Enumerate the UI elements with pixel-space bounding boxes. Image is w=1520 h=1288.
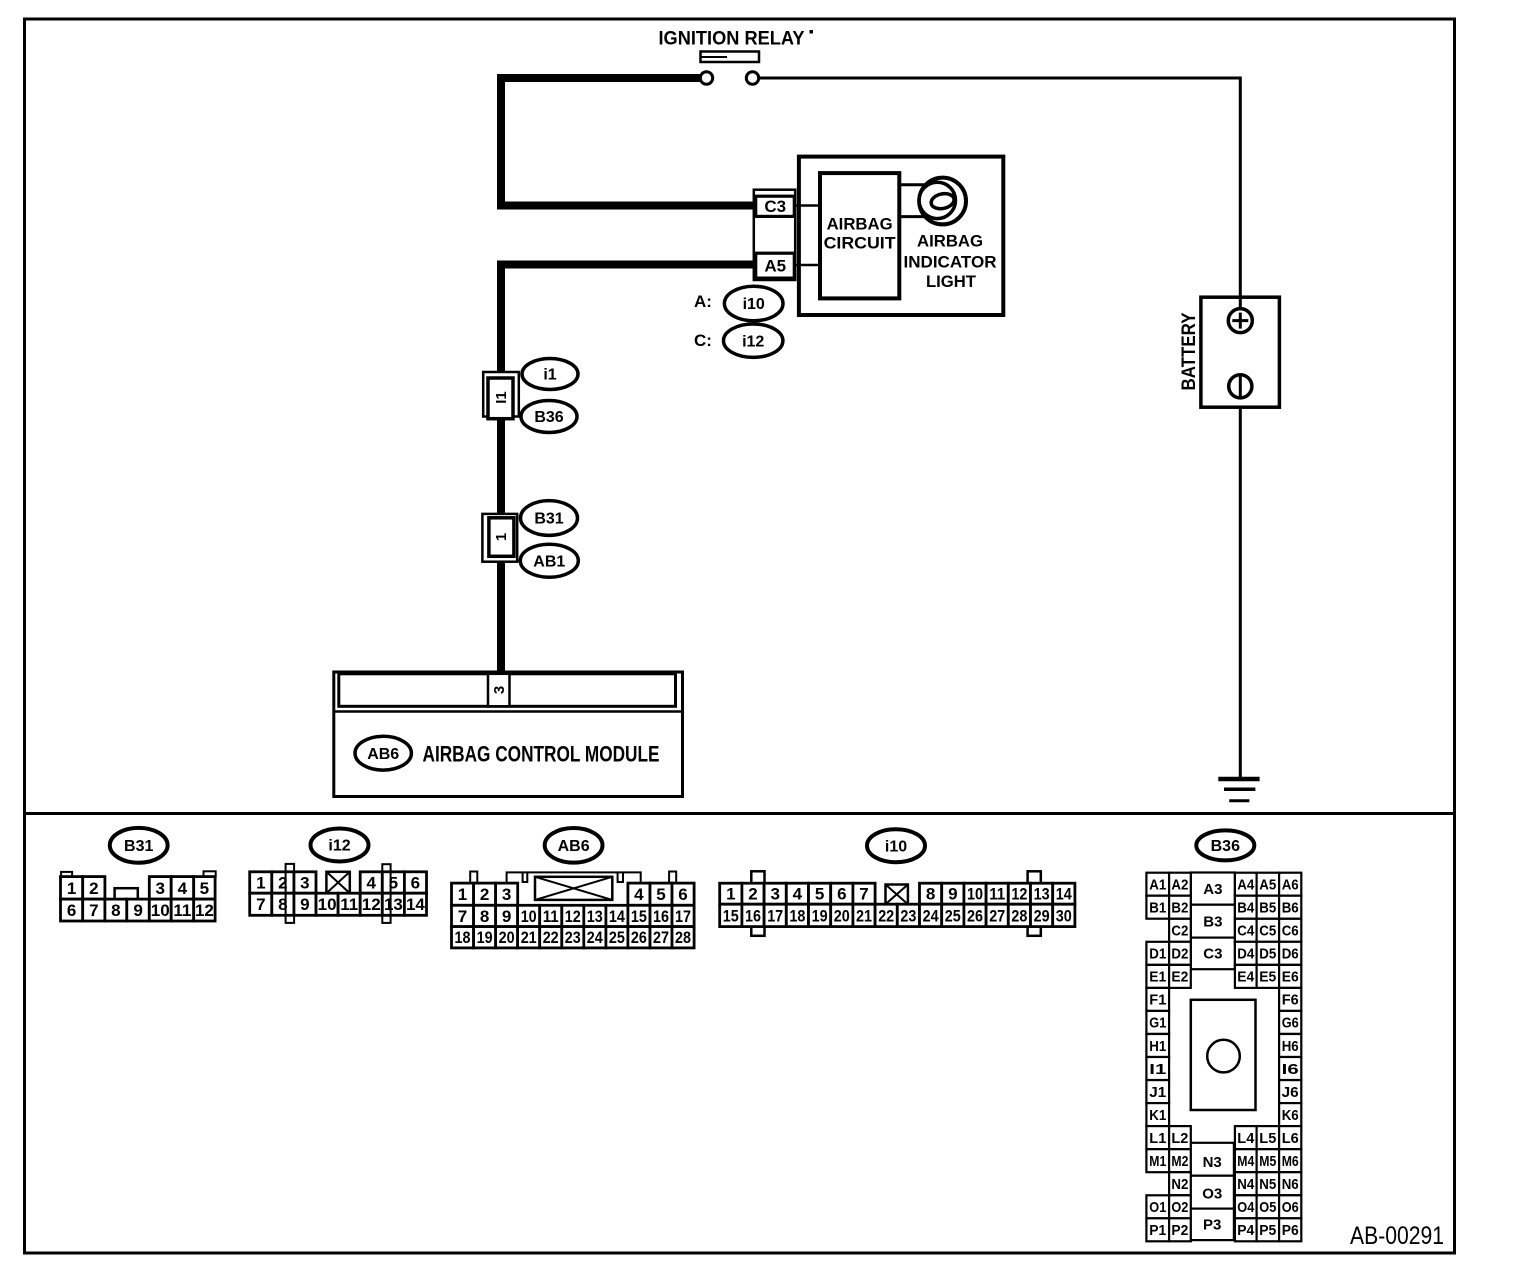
AB6 pin 7 xyxy=(452,905,474,926)
wire: relay to battery positive xyxy=(757,78,1240,779)
B36 pin A5 xyxy=(1257,873,1280,896)
B36 pin C5 xyxy=(1257,919,1280,942)
B36 pin M1 xyxy=(1146,1149,1169,1172)
svg-text:11: 11 xyxy=(173,901,191,920)
B36 pin N2 xyxy=(1169,1172,1191,1195)
B31 pin 9 xyxy=(127,899,150,921)
AB6 pin 14 xyxy=(606,905,628,926)
svg-text:H1: H1 xyxy=(1149,1038,1166,1055)
svg-text:M1: M1 xyxy=(1149,1153,1166,1170)
connector oval B31 (inline) xyxy=(521,501,578,536)
B36 pin M2 xyxy=(1169,1149,1191,1172)
svg-text:10: 10 xyxy=(151,901,170,920)
B36 pin I1 xyxy=(1146,1057,1169,1080)
i10 pin 30 xyxy=(1053,904,1075,926)
i10 latch strip left xyxy=(751,871,764,936)
B36 pin O5 xyxy=(1257,1195,1280,1218)
i10 pin 6 xyxy=(831,883,853,904)
svg-text:G6: G6 xyxy=(1282,1015,1299,1032)
svg-text:D6: D6 xyxy=(1282,946,1299,963)
AB6 pin 5 xyxy=(650,883,672,905)
svg-text:19: 19 xyxy=(477,928,493,947)
svg-text:C5: C5 xyxy=(1259,923,1276,940)
B31 pin 12 xyxy=(194,899,215,921)
svg-text:21: 21 xyxy=(521,928,537,947)
i10 pin 25 xyxy=(942,904,964,926)
AB6 pin 21 xyxy=(518,927,540,948)
i10 pin 16 xyxy=(742,904,764,926)
B36 pin O4 xyxy=(1235,1195,1257,1218)
svg-text:16: 16 xyxy=(653,907,669,926)
svg-text:E6: E6 xyxy=(1282,969,1299,986)
AB6 pin 20 xyxy=(496,927,518,948)
svg-text:22: 22 xyxy=(878,906,894,925)
B36 pin A6 xyxy=(1279,873,1301,896)
wire: ignition relay to connector C3 (thick) xyxy=(501,78,755,206)
B36 pin O2 xyxy=(1169,1195,1191,1218)
svg-text:P5: P5 xyxy=(1259,1222,1276,1239)
svg-text:J1: J1 xyxy=(1149,1084,1166,1101)
svg-text:1: 1 xyxy=(458,885,467,904)
svg-text:O5: O5 xyxy=(1259,1199,1276,1216)
B36 cell C3 xyxy=(1191,938,1235,970)
svg-text:7: 7 xyxy=(458,907,467,926)
B36 pin N4 xyxy=(1235,1172,1257,1195)
i10 latch strip right xyxy=(1028,871,1041,936)
svg-text:25: 25 xyxy=(945,906,961,925)
B36 pin B2 xyxy=(1169,896,1191,919)
inline connector I1 inner xyxy=(488,378,513,419)
i10 pin 22 xyxy=(875,904,897,926)
i10 keyway xyxy=(886,885,908,905)
svg-text:L5: L5 xyxy=(1259,1130,1276,1147)
B36 pin D4 xyxy=(1235,942,1257,965)
AB6 pin 15 xyxy=(628,905,650,926)
svg-text:8: 8 xyxy=(480,907,489,926)
svg-text:12: 12 xyxy=(1011,885,1027,904)
i10 pin 2 xyxy=(742,883,764,904)
i10 pin 13 xyxy=(1031,883,1053,904)
AB6 housing tab right xyxy=(669,872,676,884)
svg-text:28: 28 xyxy=(1011,906,1027,925)
inline connector 1 outer xyxy=(482,514,517,562)
i10 pin 18 xyxy=(786,904,808,926)
AB6 pin 6 xyxy=(672,883,694,905)
svg-text:10: 10 xyxy=(318,895,337,914)
connector oval i12 (C) xyxy=(724,324,783,357)
i10 pin 4 xyxy=(786,883,808,904)
svg-text:H6: H6 xyxy=(1282,1038,1299,1055)
svg-text:14: 14 xyxy=(1056,885,1072,904)
B36 pin P6 xyxy=(1279,1218,1301,1241)
connector pin C3 xyxy=(756,196,795,216)
svg-text:A:: A: xyxy=(694,292,712,311)
B36 pin B6 xyxy=(1279,896,1301,919)
svg-text:8: 8 xyxy=(111,901,120,920)
svg-text:E5: E5 xyxy=(1259,969,1276,986)
i10 pin 27 xyxy=(986,904,1008,926)
svg-text:9: 9 xyxy=(948,885,957,904)
svg-text:AIRBAG CONTROL MODULE: AIRBAG CONTROL MODULE xyxy=(423,742,660,767)
svg-text:3: 3 xyxy=(770,885,779,904)
svg-text:26: 26 xyxy=(631,928,647,947)
relay K1 inner bar xyxy=(702,56,728,58)
svg-text:K1: K1 xyxy=(1149,1107,1166,1124)
AB6 pin 22 xyxy=(540,927,562,948)
svg-text:4: 4 xyxy=(634,885,644,904)
B36 pin F6 xyxy=(1279,988,1301,1011)
i10 pin 9 xyxy=(942,883,964,904)
svg-text:J6: J6 xyxy=(1282,1084,1299,1101)
svg-text:10: 10 xyxy=(967,885,983,904)
svg-text:B36: B36 xyxy=(534,409,563,426)
AB6 pin 24 xyxy=(584,927,606,948)
module pin 3 cell xyxy=(488,674,510,707)
svg-text:P2: P2 xyxy=(1171,1222,1188,1239)
B36 center hole xyxy=(1207,1040,1240,1073)
i10 pin 3 xyxy=(764,883,786,904)
svg-text:1: 1 xyxy=(726,885,735,904)
AB6 pin 23 xyxy=(562,927,584,948)
B36 pin C6 xyxy=(1279,919,1301,942)
B36 pin J6 xyxy=(1279,1080,1301,1103)
AB6 pin 9 xyxy=(496,905,518,926)
B31 pin 3 xyxy=(149,877,171,900)
svg-text:B31: B31 xyxy=(534,511,563,528)
AB6 pin 16 xyxy=(650,905,672,926)
AB6 housing tab left xyxy=(470,872,477,884)
svg-text:P4: P4 xyxy=(1237,1222,1255,1239)
svg-text:9: 9 xyxy=(502,907,511,926)
B31 housing tab right xyxy=(204,871,216,877)
combination meter box xyxy=(799,157,1003,315)
svg-text:L1: L1 xyxy=(1149,1130,1166,1147)
i10 pin 11 xyxy=(986,883,1008,904)
svg-text:M6: M6 xyxy=(1282,1153,1299,1170)
svg-text:A3: A3 xyxy=(1203,881,1222,898)
i12 latch strip left xyxy=(286,864,295,923)
svg-text:AB-00291: AB-00291 xyxy=(1350,1222,1444,1250)
i10 pin 20 xyxy=(831,904,853,926)
airbag indicator light label xyxy=(904,231,997,291)
B36 pin I6 xyxy=(1279,1057,1301,1080)
svg-text:A4: A4 xyxy=(1237,877,1255,894)
wire: battery positive feed inside box xyxy=(1239,297,1242,309)
svg-text:15: 15 xyxy=(631,907,647,926)
svg-text:D1: D1 xyxy=(1149,946,1166,963)
airbag control module connector strip xyxy=(339,674,676,707)
svg-text:3: 3 xyxy=(300,874,309,893)
svg-text:A5: A5 xyxy=(1259,877,1276,894)
svg-text:6: 6 xyxy=(411,874,420,893)
svg-text:2: 2 xyxy=(480,885,489,904)
B36 pin A1 xyxy=(1146,873,1169,896)
svg-text:N2: N2 xyxy=(1171,1176,1188,1193)
B36 pin B1 xyxy=(1146,896,1169,919)
AB6 pin 8 xyxy=(474,905,496,926)
svg-text:C:: C: xyxy=(694,331,712,350)
i10 pin 14 xyxy=(1053,883,1075,904)
wire: C3 to airbag circuit xyxy=(796,204,822,207)
svg-text:13: 13 xyxy=(384,895,403,914)
svg-text:16: 16 xyxy=(745,906,761,925)
wire: airbag circuit to indicator lamp (upper) xyxy=(899,183,932,186)
svg-text:C6: C6 xyxy=(1282,923,1299,940)
svg-text:LIGHT: LIGHT xyxy=(926,272,977,291)
svg-text:17: 17 xyxy=(675,907,691,926)
B36 pin H1 xyxy=(1146,1034,1169,1057)
svg-text:18: 18 xyxy=(789,906,805,925)
AB6 pin 13 xyxy=(584,905,606,926)
AB6 pin 19 xyxy=(474,927,496,948)
AB6 pin 1 xyxy=(452,883,474,905)
svg-text:B1: B1 xyxy=(1149,900,1166,917)
i10 pin 24 xyxy=(920,904,942,926)
B31 pin 10 xyxy=(149,899,171,921)
svg-text:i10: i10 xyxy=(885,838,907,855)
i10 pin 26 xyxy=(964,904,986,926)
B36 pin A2 xyxy=(1169,873,1191,896)
connector oval AB6 (module) xyxy=(355,736,411,770)
i12 pin 3 xyxy=(294,872,316,893)
connector oval B36 xyxy=(521,401,577,433)
battery box xyxy=(1201,297,1280,407)
i10 pin 29 xyxy=(1031,904,1053,926)
i10 pin 21 xyxy=(853,904,875,926)
stray dot xyxy=(810,30,814,34)
i12 pin 10 xyxy=(316,893,338,915)
svg-text:2: 2 xyxy=(89,879,98,898)
i12 pin 2 xyxy=(272,872,294,893)
AB6 pin 3 xyxy=(496,883,518,905)
svg-text:3: 3 xyxy=(491,686,508,694)
svg-text:1: 1 xyxy=(67,879,76,898)
i10 pin 5 xyxy=(809,883,831,904)
svg-text:1: 1 xyxy=(493,533,510,541)
wire: A5 to airbag circuit xyxy=(796,264,822,267)
svg-text:N5: N5 xyxy=(1259,1176,1276,1193)
B31 pin 5 xyxy=(194,877,215,900)
B31 pin 1 xyxy=(61,877,83,900)
i10 pin 23 xyxy=(897,904,919,926)
B36 pin N5 xyxy=(1257,1172,1280,1195)
svg-text:24: 24 xyxy=(923,906,939,925)
inline connector I1 outer xyxy=(483,372,519,417)
svg-text:4: 4 xyxy=(366,874,376,893)
airbag control module box xyxy=(334,672,683,797)
relay contact terminal (right) xyxy=(746,72,758,84)
svg-text:14: 14 xyxy=(609,907,625,926)
B31 pin 2 xyxy=(83,877,105,900)
B36 pin F1 xyxy=(1146,988,1169,1011)
svg-text:5: 5 xyxy=(200,879,209,898)
B36 pin M6 xyxy=(1279,1149,1301,1172)
svg-text:13: 13 xyxy=(587,907,603,926)
AB6 pin 28 xyxy=(672,927,694,948)
svg-text:O1: O1 xyxy=(1149,1199,1166,1216)
AB6 pin 2 xyxy=(474,883,496,905)
B36 pin D2 xyxy=(1169,942,1191,965)
svg-text:L4: L4 xyxy=(1237,1130,1255,1147)
svg-text:I1: I1 xyxy=(1149,1061,1166,1078)
i10 pin 17 xyxy=(764,904,786,926)
B36 pin P4 xyxy=(1235,1218,1257,1241)
svg-text:AB1: AB1 xyxy=(533,553,565,570)
svg-text:B3: B3 xyxy=(1203,914,1222,931)
svg-text:i12: i12 xyxy=(328,838,350,855)
i12 pin 4 xyxy=(360,872,382,893)
i12 pin 8 xyxy=(272,893,294,915)
connector B36 oval xyxy=(1196,830,1254,860)
i10 pin 19 xyxy=(809,904,831,926)
svg-text:I1: I1 xyxy=(493,391,510,404)
svg-text:F6: F6 xyxy=(1282,992,1299,1009)
ground symbol xyxy=(1218,779,1259,801)
B31 pin 6 xyxy=(61,899,83,921)
svg-text:B2: B2 xyxy=(1171,900,1188,917)
B31 pin 4 xyxy=(171,877,194,900)
section separator line xyxy=(25,812,1455,815)
connector B31 oval xyxy=(110,828,168,863)
svg-text:O3: O3 xyxy=(1202,1185,1222,1202)
AB6 pin 27 xyxy=(650,927,672,948)
svg-text:12: 12 xyxy=(362,895,381,914)
svg-text:20: 20 xyxy=(834,906,850,925)
svg-text:11: 11 xyxy=(340,895,358,914)
svg-text:L6: L6 xyxy=(1282,1130,1299,1147)
svg-text:B31: B31 xyxy=(124,838,153,855)
B36 pin N6 xyxy=(1279,1172,1301,1195)
svg-text:20: 20 xyxy=(499,928,515,947)
airbag circuit unit U1 xyxy=(820,173,899,298)
svg-text:i1: i1 xyxy=(543,367,556,384)
airbag indicator light bulb xyxy=(919,178,966,225)
connector i10 oval xyxy=(867,829,925,862)
svg-text:D5: D5 xyxy=(1259,946,1276,963)
i12 pin 6 xyxy=(404,872,426,893)
svg-text:19: 19 xyxy=(812,906,828,925)
B31 latch xyxy=(115,888,138,900)
svg-text:23: 23 xyxy=(900,906,916,925)
svg-text:6: 6 xyxy=(678,885,687,904)
B36 pin D6 xyxy=(1279,942,1301,965)
svg-text:17: 17 xyxy=(767,906,783,925)
svg-text:i10: i10 xyxy=(743,296,765,313)
AB6 pin 18 xyxy=(452,927,474,948)
svg-text:13: 13 xyxy=(1034,885,1050,904)
svg-text:P1: P1 xyxy=(1149,1222,1166,1239)
svg-text:10: 10 xyxy=(521,907,537,926)
svg-text:30: 30 xyxy=(1056,906,1072,925)
i12 pin 14 xyxy=(404,893,426,915)
svg-text:O2: O2 xyxy=(1171,1199,1188,1216)
B36 pin P2 xyxy=(1169,1218,1191,1241)
AB6 pin 12 xyxy=(562,905,584,926)
B36 cell P3 xyxy=(1191,1209,1234,1241)
svg-text:N4: N4 xyxy=(1237,1176,1255,1193)
svg-text:C2: C2 xyxy=(1171,923,1188,940)
B36 pin G1 xyxy=(1146,1011,1169,1034)
svg-text:23: 23 xyxy=(565,928,581,947)
svg-text:C4: C4 xyxy=(1237,923,1255,940)
connector AB6 oval xyxy=(545,828,603,863)
B36 cell B3 xyxy=(1191,905,1235,938)
svg-text:5: 5 xyxy=(815,885,824,904)
svg-text:AIRBAG: AIRBAG xyxy=(827,215,893,234)
wire: connector A5 to airbag control module pin 3 (thick) xyxy=(501,265,755,676)
svg-text:5: 5 xyxy=(656,885,665,904)
svg-text:3: 3 xyxy=(502,885,511,904)
B36 cell O3 xyxy=(1191,1176,1234,1209)
svg-text:A5: A5 xyxy=(764,257,786,276)
B36 center body xyxy=(1191,1000,1256,1110)
svg-text:B6: B6 xyxy=(1282,900,1299,917)
svg-text:O6: O6 xyxy=(1282,1199,1299,1216)
svg-text:4: 4 xyxy=(793,885,803,904)
wire: airbag circuit to indicator lamp (lower) xyxy=(899,215,937,218)
svg-text:14: 14 xyxy=(406,895,425,914)
B36 pin O1 xyxy=(1146,1195,1169,1218)
svg-text:27: 27 xyxy=(653,928,669,947)
relay contact terminal (left) xyxy=(700,72,712,84)
svg-text:B5: B5 xyxy=(1259,900,1276,917)
connector pin A5 xyxy=(756,253,795,278)
svg-text:M4: M4 xyxy=(1237,1153,1255,1170)
i12 latch strip right xyxy=(382,864,390,923)
svg-text:M2: M2 xyxy=(1171,1153,1188,1170)
svg-text:I6: I6 xyxy=(1282,1061,1299,1078)
B36 pin B4 xyxy=(1235,896,1257,919)
i12 pin 9 xyxy=(294,893,316,915)
B36 pin E4 xyxy=(1235,965,1257,988)
i12 pin 5 xyxy=(382,872,404,893)
svg-text:7: 7 xyxy=(256,895,265,914)
svg-text:29: 29 xyxy=(1034,906,1050,925)
svg-text:E2: E2 xyxy=(1171,969,1188,986)
i12 pin 13 xyxy=(382,893,404,915)
B36 pin D1 xyxy=(1146,942,1169,965)
svg-text:11: 11 xyxy=(989,885,1005,904)
connector housing C3/A5 outline xyxy=(754,190,795,280)
svg-text:C3: C3 xyxy=(764,197,786,216)
B36 pin A4 xyxy=(1235,873,1257,896)
B36 cell N3 xyxy=(1191,1143,1234,1176)
B36 pin D5 xyxy=(1257,942,1280,965)
svg-text:21: 21 xyxy=(856,906,872,925)
svg-text:6: 6 xyxy=(837,885,846,904)
svg-text:3: 3 xyxy=(155,879,164,898)
B36 pin L4 xyxy=(1235,1126,1257,1149)
svg-text:A2: A2 xyxy=(1171,877,1188,894)
i10 pin 28 xyxy=(1008,904,1030,926)
svg-text:22: 22 xyxy=(543,928,559,947)
svg-text:B36: B36 xyxy=(1211,838,1240,855)
connector oval AB1 xyxy=(520,544,578,577)
B36 pin E2 xyxy=(1169,965,1191,988)
svg-text:7: 7 xyxy=(89,901,98,920)
AB6 pin 17 xyxy=(672,905,694,926)
svg-text:18: 18 xyxy=(455,928,471,947)
B31 pin 8 xyxy=(105,899,127,921)
svg-text:D4: D4 xyxy=(1237,946,1255,963)
B31 pin 11 xyxy=(171,899,194,921)
B36 cell A3 xyxy=(1191,873,1235,905)
svg-text:A1: A1 xyxy=(1149,877,1166,894)
svg-text:i12: i12 xyxy=(742,333,764,350)
i12 pin 12 xyxy=(360,893,382,915)
B36 pin E1 xyxy=(1146,965,1169,988)
i12 pin 1 xyxy=(250,872,272,893)
